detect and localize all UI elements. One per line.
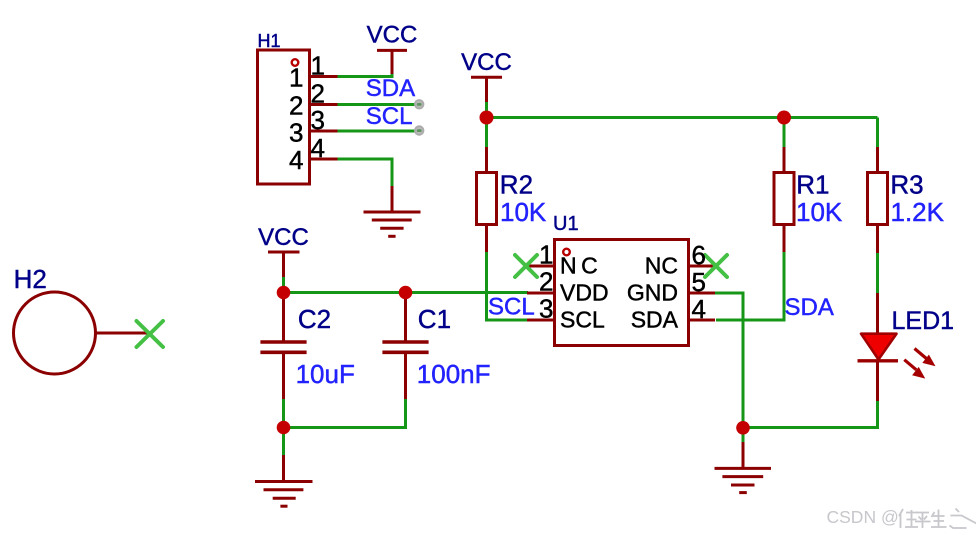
svg-text:4: 4: [289, 145, 303, 175]
svg-text:VCC: VCC: [258, 224, 309, 251]
svg-text:NC: NC: [560, 253, 602, 279]
svg-text:R1: R1: [796, 170, 829, 200]
svg-text:U1: U1: [553, 213, 579, 235]
svg-text:CSDN @: CSDN @: [827, 507, 899, 527]
svg-text:2: 2: [289, 90, 303, 120]
svg-text:GND: GND: [627, 280, 678, 306]
svg-text:SDA: SDA: [785, 294, 834, 321]
svg-text:SCL: SCL: [488, 294, 535, 321]
svg-text:10K: 10K: [500, 197, 547, 227]
svg-text:1: 1: [311, 51, 325, 81]
svg-text:100nF: 100nF: [417, 359, 491, 389]
svg-text:VDD: VDD: [560, 280, 609, 306]
svg-text:1: 1: [289, 62, 303, 92]
svg-text:5: 5: [692, 267, 706, 297]
svg-text:SCL: SCL: [366, 103, 413, 130]
svg-text:2: 2: [311, 79, 325, 109]
svg-text:6: 6: [692, 240, 706, 270]
svg-text:2: 2: [539, 267, 553, 297]
svg-text:SCL: SCL: [560, 307, 605, 333]
svg-text:3: 3: [311, 105, 325, 135]
svg-text:VCC: VCC: [367, 22, 418, 49]
svg-text:H2: H2: [14, 264, 47, 294]
svg-text:SDA: SDA: [631, 307, 679, 333]
svg-text:LED1: LED1: [892, 307, 955, 335]
svg-text:SDA: SDA: [366, 75, 415, 102]
svg-text:C2: C2: [298, 304, 331, 334]
svg-text:C1: C1: [418, 304, 451, 334]
svg-text:3: 3: [289, 117, 303, 147]
svg-text:H1: H1: [258, 31, 281, 51]
svg-text:1: 1: [539, 240, 553, 270]
svg-text:4: 4: [692, 294, 706, 324]
svg-text:10uF: 10uF: [296, 359, 355, 389]
svg-text:10K: 10K: [796, 197, 843, 227]
svg-text:VCC: VCC: [461, 49, 512, 76]
svg-text:NC: NC: [645, 253, 678, 279]
svg-text:3: 3: [539, 294, 553, 324]
svg-text:R2: R2: [500, 170, 533, 200]
svg-text:4: 4: [311, 133, 325, 163]
svg-text:1.2K: 1.2K: [891, 197, 945, 227]
svg-text:R3: R3: [890, 170, 923, 200]
